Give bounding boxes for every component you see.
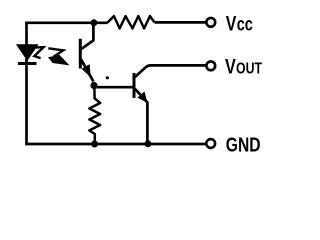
terminal GND — [206, 139, 215, 148]
phototransistor Q1 base bar — [79, 39, 82, 69]
wire: ground rail — [25, 143, 205, 146]
wire: Q2 collector to Vout terminal — [150, 64, 206, 67]
node: Q1 emitter / R2 / Q2 base junction — [90, 82, 97, 89]
transistor Q2 base bar — [133, 73, 136, 98]
junction dot: Q2 emitter on ground rail — [144, 140, 151, 147]
light ray arrow 2 — [48, 48, 70, 65]
resistor R2 — [89, 87, 100, 146]
resistor R1 — [108, 16, 155, 28]
terminal Vout — [206, 61, 215, 70]
photodiode D1 cathode bar — [18, 62, 37, 65]
phototransistor Q1 collector — [81, 22, 93, 50]
photodiode D1 triangle (anode) — [16, 44, 39, 61]
transistor Q2 emitter — [135, 89, 148, 145]
junction dot: Q1 collector on Vcc rail — [91, 19, 98, 26]
svg-text:VOUT: VOUT — [225, 55, 262, 79]
svg-text:GND: GND — [226, 134, 261, 156]
svg-text:Vcc: Vcc — [226, 12, 253, 36]
wire: left rail — [25, 22, 28, 145]
light ray arrow 1 — [34, 47, 44, 58]
transistor Q2 collector — [135, 65, 151, 77]
phototransistor Q1 emitter — [81, 59, 93, 81]
wire: node to Q2 base — [94, 86, 134, 89]
wire: R1 to Vcc terminal — [155, 21, 206, 24]
wire: top supply rail — [25, 21, 108, 24]
terminal Vcc — [206, 18, 215, 27]
junction dot: R2 on ground rail — [91, 141, 98, 148]
